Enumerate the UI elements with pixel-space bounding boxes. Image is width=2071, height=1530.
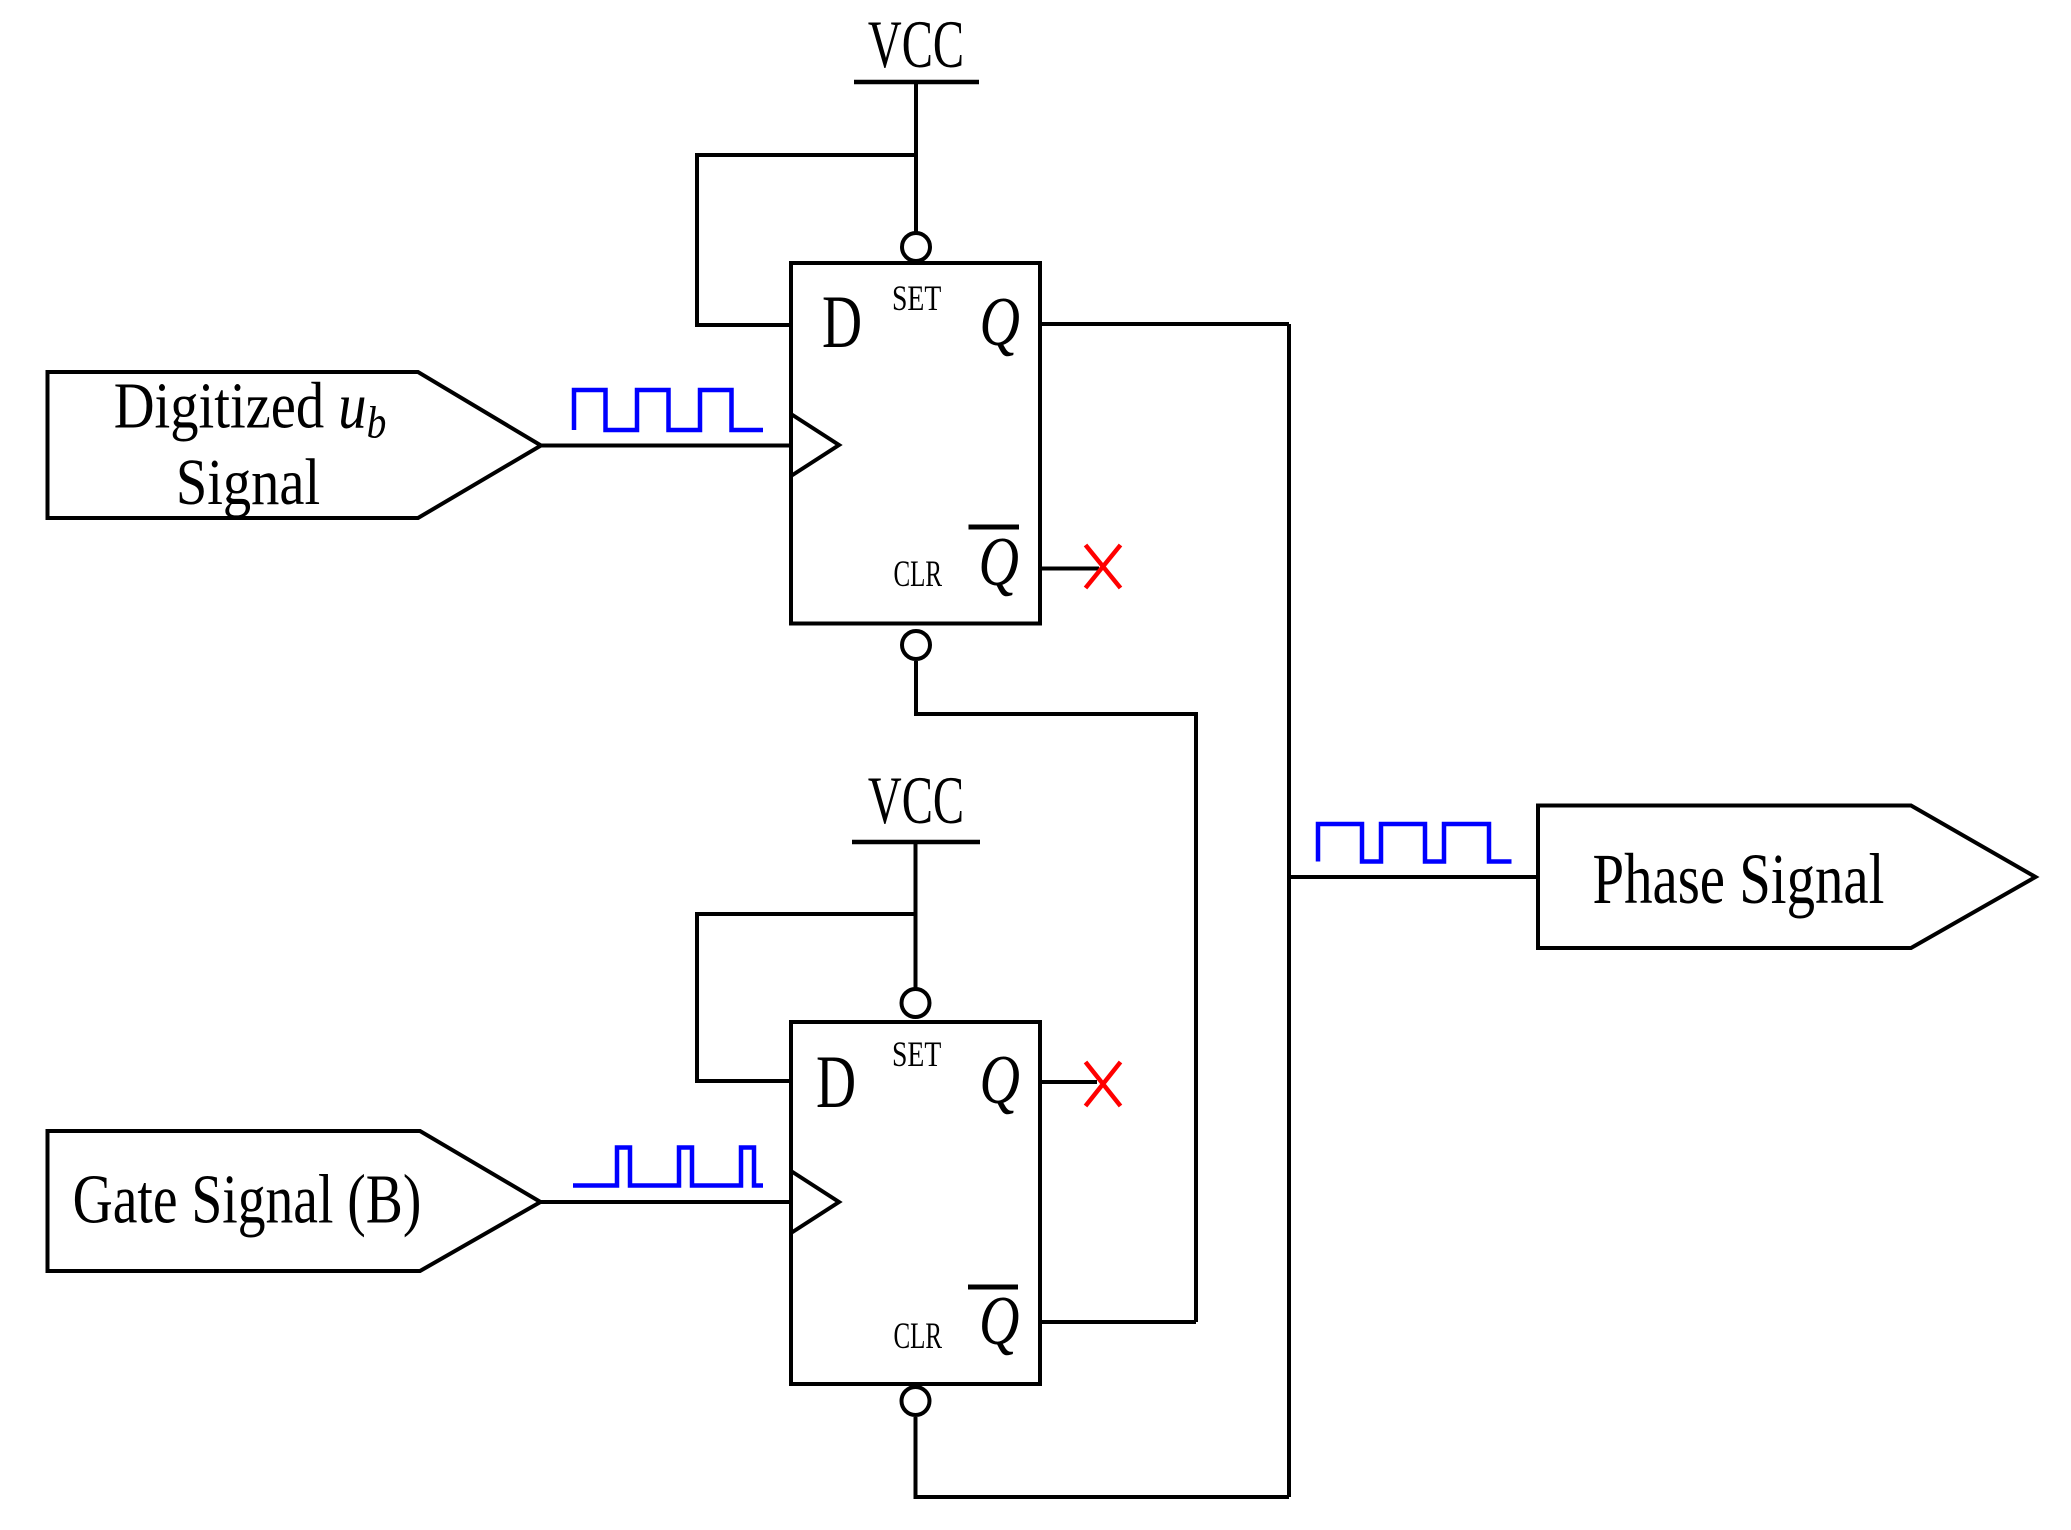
- wire net Q1 long vertical: [1287, 324, 1291, 1497]
- waveform gate signal (blue): [573, 1148, 763, 1186]
- U2 SET bubble: [902, 989, 930, 1017]
- U2 pin label Q-bar: [968, 1282, 1019, 1359]
- no-connect X2 (red): [1086, 1062, 1121, 1106]
- svg-text:Q: Q: [980, 1041, 1020, 1118]
- svg-text:Q: Q: [979, 523, 1019, 600]
- svg-text:Phase Signal: Phase Signal: [1593, 840, 1885, 920]
- svg-text:D: D: [822, 281, 862, 364]
- input callout Gate Signal (B): [48, 1131, 541, 1271]
- no-connect X1 (red): [1086, 545, 1121, 588]
- wire Q2 stub: [1040, 1080, 1097, 1084]
- svg-text:VCC: VCC: [868, 6, 964, 82]
- svg-text:D: D: [816, 1041, 856, 1124]
- U2 clock edge triangle: [791, 1171, 839, 1233]
- svg-text:VCC: VCC: [868, 762, 964, 838]
- wire D2 feedback to VCC2 net: [697, 914, 916, 1081]
- wire CLR2 bottom to Q1 net: [916, 1417, 1290, 1497]
- U1 pin label Q-bar: [969, 523, 1020, 600]
- wire clock2 input: [541, 1200, 792, 1204]
- svg-text:SET: SET: [892, 278, 942, 318]
- power VCC2 bar symbol: [852, 840, 980, 845]
- svg-text:Gate Signal (B): Gate Signal (B): [73, 1160, 422, 1238]
- wire Q1 output: [1040, 322, 1289, 326]
- wire VCC2 to SET2 bubble: [914, 842, 918, 988]
- output callout Phase Signal: [1538, 806, 2036, 949]
- waveform phase signal (blue): [1318, 824, 1512, 862]
- waveform digitized ub (blue): [574, 390, 763, 430]
- flip-flop U1 box: [791, 263, 1040, 624]
- wire Q2-bar to CLR1 net: [1040, 1320, 1196, 1324]
- flip-flop U2 box: [791, 1022, 1040, 1384]
- U1 CLR bubble: [902, 631, 930, 659]
- wire D1 feedback to VCC1 net: [697, 155, 916, 325]
- svg-text:Digitized ub: Digitized ub: [114, 370, 387, 449]
- wire clock1 input: [541, 444, 791, 448]
- U1 clock edge triangle: [791, 414, 839, 476]
- svg-text:SET: SET: [892, 1034, 942, 1074]
- input callout Digitized ub Signal: [48, 370, 542, 520]
- svg-text:Signal: Signal: [176, 446, 320, 519]
- wire CLR1 to Q2-bar net: [916, 661, 1196, 1322]
- svg-text:Q: Q: [980, 283, 1020, 360]
- power VCC1 bar symbol: [854, 80, 979, 85]
- U2 CLR bubble: [902, 1387, 930, 1415]
- svg-text:CLR: CLR: [894, 553, 943, 594]
- wire VCC1 to SET1 bubble: [914, 82, 918, 232]
- svg-text:CLR: CLR: [894, 1315, 943, 1356]
- wire Q1-bar stub: [1040, 567, 1099, 571]
- U1 SET bubble: [902, 233, 930, 261]
- svg-text:Q: Q: [979, 1282, 1019, 1359]
- wire phase signal tap: [1289, 875, 1538, 879]
